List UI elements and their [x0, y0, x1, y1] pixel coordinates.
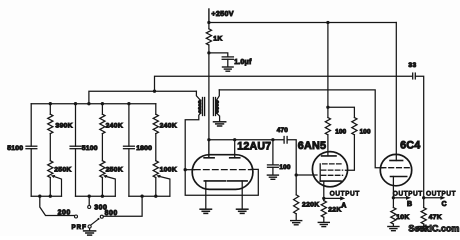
- tube 12AU7 plate 1: [208, 140, 210, 158]
- wire grid right lead + return loop: [185, 169, 258, 195]
- ground for 220K: [291, 220, 302, 222]
- svg-text:10K: 10K: [396, 214, 409, 221]
- svg-text:100K: 100K: [160, 166, 177, 173]
- svg-text:12AU7: 12AU7: [237, 140, 271, 152]
- svg-text:SeekIC.com: SeekIC.com: [408, 224, 459, 234]
- wiper 100K: [159, 176, 170, 196]
- wire RC bottom rail 3: [129, 195, 170, 197]
- svg-text:100: 100: [279, 164, 291, 171]
- svg-text:390K: 390K: [55, 122, 72, 129]
- wire cathode 1 to ground: [205, 181, 207, 209]
- resistor 240K (first): [101, 104, 103, 115]
- svg-text:OUTPUT: OUTPUT: [393, 190, 423, 197]
- svg-text:240K: 240K: [106, 122, 123, 129]
- wire plate bus y140: [209, 139, 284, 141]
- transformer T1 plate winding (right): [216, 100, 218, 113]
- capacitor 33: [412, 73, 414, 79]
- ground cathode 2: [237, 208, 248, 210]
- junction B+ rail: [207, 21, 210, 24]
- wire RC bottom rail 2: [76, 195, 116, 197]
- potentiometer 100K: [153, 161, 158, 178]
- tube 12AU7 plate 2: [234, 140, 236, 158]
- wire 6AN5 grid lead: [296, 174, 317, 176]
- junction output C: [422, 196, 425, 199]
- wiper 250K second: [106, 176, 115, 196]
- op-amp , none: tube 12AU7 envelope: [192, 155, 253, 190]
- svg-text:250K: 250K: [106, 166, 123, 173]
- svg-text:A: A: [341, 203, 346, 210]
- svg-text:B: B: [407, 201, 412, 208]
- wire to contact 800: [104, 196, 142, 216]
- svg-text:800: 800: [105, 210, 118, 217]
- wire cathode 2 to ground: [241, 181, 243, 209]
- contact 200: [75, 215, 78, 218]
- wire 33 cap to output C: [415, 76, 423, 198]
- ground for 22K: [318, 221, 329, 223]
- wire output C feed y76: [155, 76, 413, 91]
- svg-text:47K: 47K: [429, 214, 442, 221]
- contact 300: [88, 206, 91, 209]
- svg-text:1.0μf: 1.0μf: [234, 59, 252, 66]
- tube 6C4 envelope: [380, 154, 411, 185]
- svg-text:22K: 22K: [328, 207, 341, 214]
- tube 6C4 cathode: [391, 176, 407, 178]
- transformer T1 core: [202, 98, 204, 116]
- ground cathode 1: [200, 208, 211, 210]
- wire 6C4 cathode to output B: [392, 177, 394, 198]
- svg-text:PRF: PRF: [72, 224, 87, 231]
- wire to contact 200: [40, 196, 74, 215]
- svg-text:OUTPUT: OUTPUT: [426, 190, 456, 197]
- resistor 100 (plate): [325, 118, 330, 135]
- tube 6AN5 envelope: [312, 152, 347, 187]
- svg-text:240K: 240K: [160, 122, 177, 129]
- wire grid-winding rail y91: [89, 91, 196, 104]
- potentiometer 250K (second): [100, 161, 105, 178]
- svg-text:33: 33: [408, 62, 416, 69]
- wire B+ top rail: [209, 22, 396, 24]
- tube 6AN5 screen (dashed): [321, 169, 342, 171]
- tube 6C4 plate: [390, 160, 403, 162]
- tube 6AN5 suppressor (dashed): [323, 163, 343, 165]
- wire B+ branch to 6AN5: [326, 21, 329, 24]
- capacitor 1.0uF: [222, 56, 233, 58]
- tube 12AU7 grid (dashed): [195, 169, 252, 171]
- ground for 10K: [388, 226, 399, 228]
- ground for transformer winding: [214, 121, 226, 123]
- wire B+ vertical to 12AU7 plates: [208, 53, 210, 158]
- svg-text:OUTPUT: OUTPUT: [330, 190, 360, 197]
- wire 6AN5 cathode to output A: [323, 181, 325, 198]
- tube 6AN5 cathode: [320, 180, 341, 182]
- wire to decoupling cap: [209, 53, 228, 56]
- resistor 47K: [423, 198, 425, 208]
- capacitor 5100 (first): [30, 104, 32, 147]
- resistor 220K: [295, 175, 297, 195]
- node output C arrow: [424, 197, 442, 199]
- svg-text:5100: 5100: [82, 145, 98, 152]
- svg-text:+250V: +250V: [211, 9, 233, 18]
- wire RC top rail: [31, 103, 156, 105]
- svg-text:6C4: 6C4: [400, 140, 420, 152]
- ground for 47K: [418, 226, 429, 228]
- resistor 22K: [323, 198, 325, 200]
- wire plate-winding to 6C4 grid y90: [219, 90, 383, 168]
- wiper 250K first: [54, 176, 62, 196]
- svg-text:250K: 250K: [54, 166, 71, 173]
- svg-text:470: 470: [277, 127, 289, 134]
- svg-text:100: 100: [335, 129, 346, 136]
- ground for PRF switch: [89, 228, 91, 230]
- tube 6AN5 control grid (dashed): [321, 174, 342, 176]
- junction RC rail taps: [49, 102, 52, 105]
- ground for 100 cap: [267, 174, 278, 176]
- svg-text:220K: 220K: [302, 201, 319, 208]
- resistor 240K (second): [155, 104, 157, 115]
- wire screen lead into 6AN5: [345, 135, 354, 170]
- svg-text:6AN5: 6AN5: [298, 140, 326, 152]
- svg-text:C: C: [442, 201, 447, 208]
- wire plate lead into 6AN5: [327, 135, 329, 156]
- capacitor 470: [283, 137, 285, 144]
- wire to contact 300: [88, 196, 90, 205]
- node output B arrow: [393, 197, 406, 199]
- svg-text:100: 100: [360, 129, 371, 136]
- tube 12AU7 cathode 2: [228, 180, 247, 182]
- resistor 100 (screen): [352, 118, 357, 135]
- transformer T1 grid winding (left): [199, 100, 201, 113]
- wire RC bottom rail 1: [31, 195, 61, 197]
- ground for 1.0uF: [223, 66, 234, 68]
- wire grid left lead: [185, 169, 194, 171]
- switch wiper arm PRF: [91, 219, 99, 225]
- wire B+ to 6C4 plate: [395, 23, 397, 161]
- tube 6AN5 plate: [322, 155, 336, 157]
- resistor 1K: [208, 23, 210, 29]
- svg-text:1800: 1800: [136, 145, 152, 152]
- tube 12AU7 cathode 1: [204, 180, 225, 182]
- tube 6C4 grid (dashed): [381, 167, 410, 169]
- resistor 390K: [49, 104, 51, 115]
- node output A arrow: [324, 197, 341, 199]
- capacitor 5100 (second): [75, 104, 77, 147]
- node +250V supply terminal: [208, 9, 210, 23]
- svg-text:5100: 5100: [7, 145, 23, 152]
- junction output C tap: [153, 90, 156, 93]
- svg-text:200: 200: [58, 210, 71, 217]
- potentiometer 250K (first): [48, 161, 53, 178]
- capacitor 100 (grid): [272, 140, 274, 165]
- svg-text:1K: 1K: [213, 36, 223, 43]
- tube 6AN5 suppressor tie: [319, 164, 321, 181]
- capacitor 1800: [128, 104, 130, 147]
- junction 1K bottom: [207, 51, 210, 54]
- contact 800: [100, 215, 103, 218]
- resistor 10K: [392, 198, 394, 208]
